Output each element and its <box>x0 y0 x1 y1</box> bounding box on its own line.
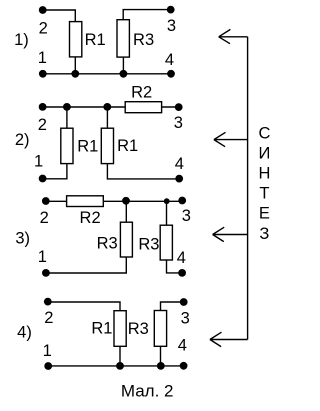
label pin 3 (circuit 1) <box>167 17 176 35</box>
node 2 terminal dot (circuit 1) <box>39 6 47 14</box>
wire R3b bottom to node4 (circuit 3) <box>167 260 183 273</box>
svg-text:1: 1 <box>43 342 52 360</box>
junction dot D (circuit 3) <box>164 198 170 204</box>
svg-text:R1: R1 <box>117 137 138 155</box>
resistor R3 second (circuit 3) <box>160 225 172 260</box>
value label R3 (circuit 4) <box>128 320 149 338</box>
svg-text:4: 4 <box>178 337 187 355</box>
resistor R3 (circuit 4) <box>154 311 166 347</box>
node 3 terminal dot (circuit 1) <box>167 6 175 14</box>
wire R1b bottom to node4 (circuit 2) <box>107 164 179 179</box>
label pin 1 (circuit 3) <box>38 248 47 266</box>
wire R2 to node3 (circuit 2) <box>162 106 179 108</box>
svg-text:2: 2 <box>44 309 53 327</box>
label pin 3 (circuit 2) <box>174 114 183 132</box>
wire bottom rail node1 to node4 (circuit 1) <box>43 73 171 75</box>
label 4) circuit index <box>17 323 32 341</box>
resistor R2 (circuit 3) <box>67 196 104 207</box>
resistor R3 first (circuit 3) <box>120 222 132 257</box>
label 2) circuit index <box>15 131 30 149</box>
value label R3 second (circuit 3) <box>138 236 159 254</box>
value label R1 (circuit 1) <box>85 31 106 49</box>
node 3 terminal dot (circuit 3) <box>178 197 186 205</box>
node 1 terminal dot (circuit 1) <box>39 70 47 78</box>
svg-text:З: З <box>259 225 269 243</box>
wire bottom rail node1 to node4 (circuit 4) <box>48 365 183 367</box>
node 2 terminal dot (circuit 4) <box>44 298 52 306</box>
wire R1 bottom to bottom rail (circuit 1) <box>74 57 76 74</box>
label pin 4 (circuit 2) <box>175 155 184 173</box>
vertical caption СИНТЕЗ letter Н <box>258 165 270 183</box>
wire circuit3 top rail R2 to node3 <box>103 200 182 202</box>
wire R1 bottom to bottom rail (circuit 4) <box>119 346 121 366</box>
svg-text:R2: R2 <box>131 83 152 101</box>
wire circuit2 top rail node2 to R2 <box>43 106 126 108</box>
junction dot below R3 (circuit 4) <box>157 362 165 370</box>
wire junction C to R3a top (circuit 3) <box>125 201 127 222</box>
label pin 1 (circuit 4) <box>43 342 52 360</box>
vertical caption СИНТЕЗ letter Е <box>259 205 270 223</box>
value label R2 (circuit 3) <box>80 209 101 227</box>
wire R3 bottom to bottom rail (circuit 1) <box>122 57 124 74</box>
junction dot below R3 (circuit 1) <box>120 70 128 78</box>
svg-text:Н: Н <box>258 165 270 183</box>
label pin 3 (circuit 4) <box>181 309 190 327</box>
value label R2 (circuit 2) <box>131 83 152 101</box>
wire circuit1 top-left from node2 to R1 top <box>43 10 76 22</box>
node 2 terminal dot (circuit 2) <box>39 103 47 111</box>
junction dot below R1 (circuit 4) <box>116 362 124 370</box>
wire R1a bottom to node1 (circuit 2) <box>43 164 67 179</box>
arrow to circuit 3 <box>213 227 248 241</box>
svg-text:2: 2 <box>38 116 47 134</box>
node 3 terminal dot (circuit 2) <box>175 103 183 111</box>
label pin 1 (circuit 2) <box>34 153 43 171</box>
bracket vertical line (synthesis) <box>247 37 249 340</box>
value label R1 second (circuit 2) <box>117 137 138 155</box>
svg-text:3: 3 <box>181 309 190 327</box>
junction dot A (circuit 2) <box>63 103 71 111</box>
arrow to circuit 1 <box>219 29 248 43</box>
label 3) circuit index <box>15 229 30 247</box>
label pin 4 (circuit 1) <box>165 51 174 69</box>
svg-text:4): 4) <box>17 323 32 341</box>
svg-text:И: И <box>258 145 270 163</box>
svg-text:3: 3 <box>174 114 183 132</box>
svg-text:1): 1) <box>14 31 29 49</box>
resistor R1 (circuit 4) <box>114 311 126 347</box>
label pin 4 (circuit 3) <box>177 249 186 267</box>
value label R1 (circuit 4) <box>91 320 112 338</box>
junction dot below R1 (circuit 1) <box>71 70 79 78</box>
svg-text:1: 1 <box>38 248 47 266</box>
label pin 3 (circuit 3) <box>182 207 191 225</box>
svg-text:R2: R2 <box>80 209 101 227</box>
svg-text:4: 4 <box>165 51 174 69</box>
svg-text:4: 4 <box>175 155 184 173</box>
label pin 2 (circuit 1) <box>39 20 48 38</box>
wire circuit4 node3 to R3 top <box>161 302 184 311</box>
svg-text:R1: R1 <box>91 320 112 338</box>
wire junction A to R1a top (circuit 2) <box>66 107 68 128</box>
resistor R1 first (circuit 2) <box>61 128 73 163</box>
value label R3 first (circuit 3) <box>97 235 118 253</box>
vertical caption СИНТЕЗ letter З <box>259 225 269 243</box>
vertical caption СИНТЕЗ letter Т <box>259 185 269 203</box>
node 4 terminal dot (circuit 4) <box>180 362 188 370</box>
node 1 terminal dot (circuit 4) <box>44 362 52 370</box>
svg-text:Е: Е <box>259 205 270 223</box>
wire junction B to R1b top (circuit 2) <box>106 107 108 128</box>
node 4 terminal dot (circuit 1) <box>167 70 175 78</box>
svg-text:3): 3) <box>15 229 30 247</box>
vertical caption СИНТЕЗ letter С <box>258 124 270 142</box>
label pin 1 (circuit 1) <box>38 49 47 67</box>
label pin 2 (circuit 4) <box>44 309 53 327</box>
svg-text:Т: Т <box>259 185 269 203</box>
node 2 terminal dot (circuit 3) <box>42 197 50 205</box>
svg-text:2): 2) <box>15 131 30 149</box>
label 1) circuit index <box>14 31 29 49</box>
svg-text:3: 3 <box>182 207 191 225</box>
svg-text:R1: R1 <box>77 137 98 155</box>
svg-text:R3: R3 <box>138 236 159 254</box>
wire circuit4 node2 to R1 top <box>48 302 120 311</box>
value label R3 (circuit 1) <box>133 31 154 49</box>
wire R3 top to node3 (circuit 1) <box>123 10 171 20</box>
node 3 terminal dot (circuit 4) <box>180 298 188 306</box>
svg-text:Мал. 2: Мал. 2 <box>121 381 174 400</box>
svg-text:1: 1 <box>38 49 47 67</box>
svg-text:1: 1 <box>34 153 43 171</box>
svg-text:С: С <box>258 124 270 142</box>
arrow to circuit 2 <box>214 132 248 146</box>
node 4 terminal dot (circuit 2) <box>175 175 183 183</box>
resistor R3 (circuit 1) <box>117 20 129 57</box>
label pin 4 (circuit 4) <box>178 337 187 355</box>
label pin 2 (circuit 3) <box>40 209 49 227</box>
resistor R2 (circuit 2) <box>125 102 161 113</box>
label pin 2 (circuit 2) <box>38 116 47 134</box>
resistor R1 second (circuit 2) <box>101 128 113 163</box>
junction dot B (circuit 2) <box>103 103 111 111</box>
svg-text:R3: R3 <box>97 235 118 253</box>
svg-text:R1: R1 <box>85 31 106 49</box>
wire R3 bottom to bottom rail (circuit 4) <box>160 346 162 366</box>
figure caption Мал. 2 <box>121 381 174 400</box>
svg-text:4: 4 <box>177 249 186 267</box>
wire junction D to R3b top (circuit 3) <box>166 201 168 225</box>
svg-text:R3: R3 <box>133 31 154 49</box>
arrow to circuit 4 <box>210 332 248 346</box>
svg-text:2: 2 <box>39 20 48 38</box>
value label R1 first (circuit 2) <box>77 137 98 155</box>
node 1 terminal dot (circuit 3) <box>42 269 50 277</box>
svg-text:R3: R3 <box>128 320 149 338</box>
wire R3a bottom to node1 (circuit 3) <box>46 257 126 273</box>
wire circuit3 node2 to R2 <box>46 200 67 202</box>
junction dot C (circuit 3) <box>122 197 130 205</box>
node 4 terminal dot (circuit 3) <box>178 269 186 277</box>
node 1 terminal dot (circuit 2) <box>39 175 47 183</box>
vertical caption СИНТЕЗ letter И <box>258 145 270 163</box>
resistor R1 (circuit 1) <box>70 22 82 57</box>
svg-text:2: 2 <box>40 209 49 227</box>
svg-text:3: 3 <box>167 17 176 35</box>
